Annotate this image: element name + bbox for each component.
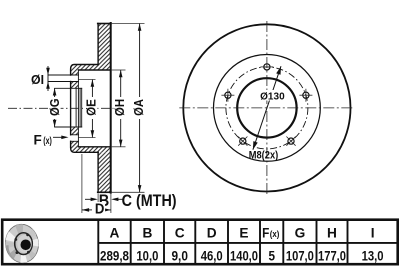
svg-text:ØE: ØE [85,99,99,116]
svg-text:5: 5 [268,248,275,264]
svg-text:I: I [371,225,375,240]
svg-text:107,0: 107,0 [286,248,314,264]
svg-text:H: H [327,225,337,240]
svg-text:F: F [262,225,269,240]
svg-text:(x): (x) [270,229,280,240]
svg-text:289,8: 289,8 [100,248,129,264]
svg-text:A: A [110,225,120,240]
svg-text:ØG: ØG [48,98,62,116]
svg-text:D: D [207,225,217,240]
svg-text:177,0: 177,0 [318,248,346,264]
svg-text:G: G [295,225,306,240]
svg-text:ØA: ØA [132,99,146,116]
svg-text:E: E [239,225,248,240]
svg-text:(x): (x) [43,136,52,147]
svg-text:10,0: 10,0 [136,248,158,264]
svg-text:13,0: 13,0 [362,248,384,264]
svg-text:D: D [95,201,105,218]
svg-text:140,0: 140,0 [230,248,258,264]
svg-text:46,0: 46,0 [201,248,223,264]
svg-text:Ø130: Ø130 [260,90,285,102]
svg-text:M8(2x): M8(2x) [249,150,279,162]
svg-text:ØI: ØI [31,72,44,87]
svg-text:F: F [34,132,42,147]
svg-text:9,0: 9,0 [171,248,188,264]
svg-text:C: C [175,225,185,240]
svg-text:ØH: ØH [113,99,127,116]
svg-text:B: B [142,225,152,240]
svg-text:C (MTH): C (MTH) [122,192,177,210]
